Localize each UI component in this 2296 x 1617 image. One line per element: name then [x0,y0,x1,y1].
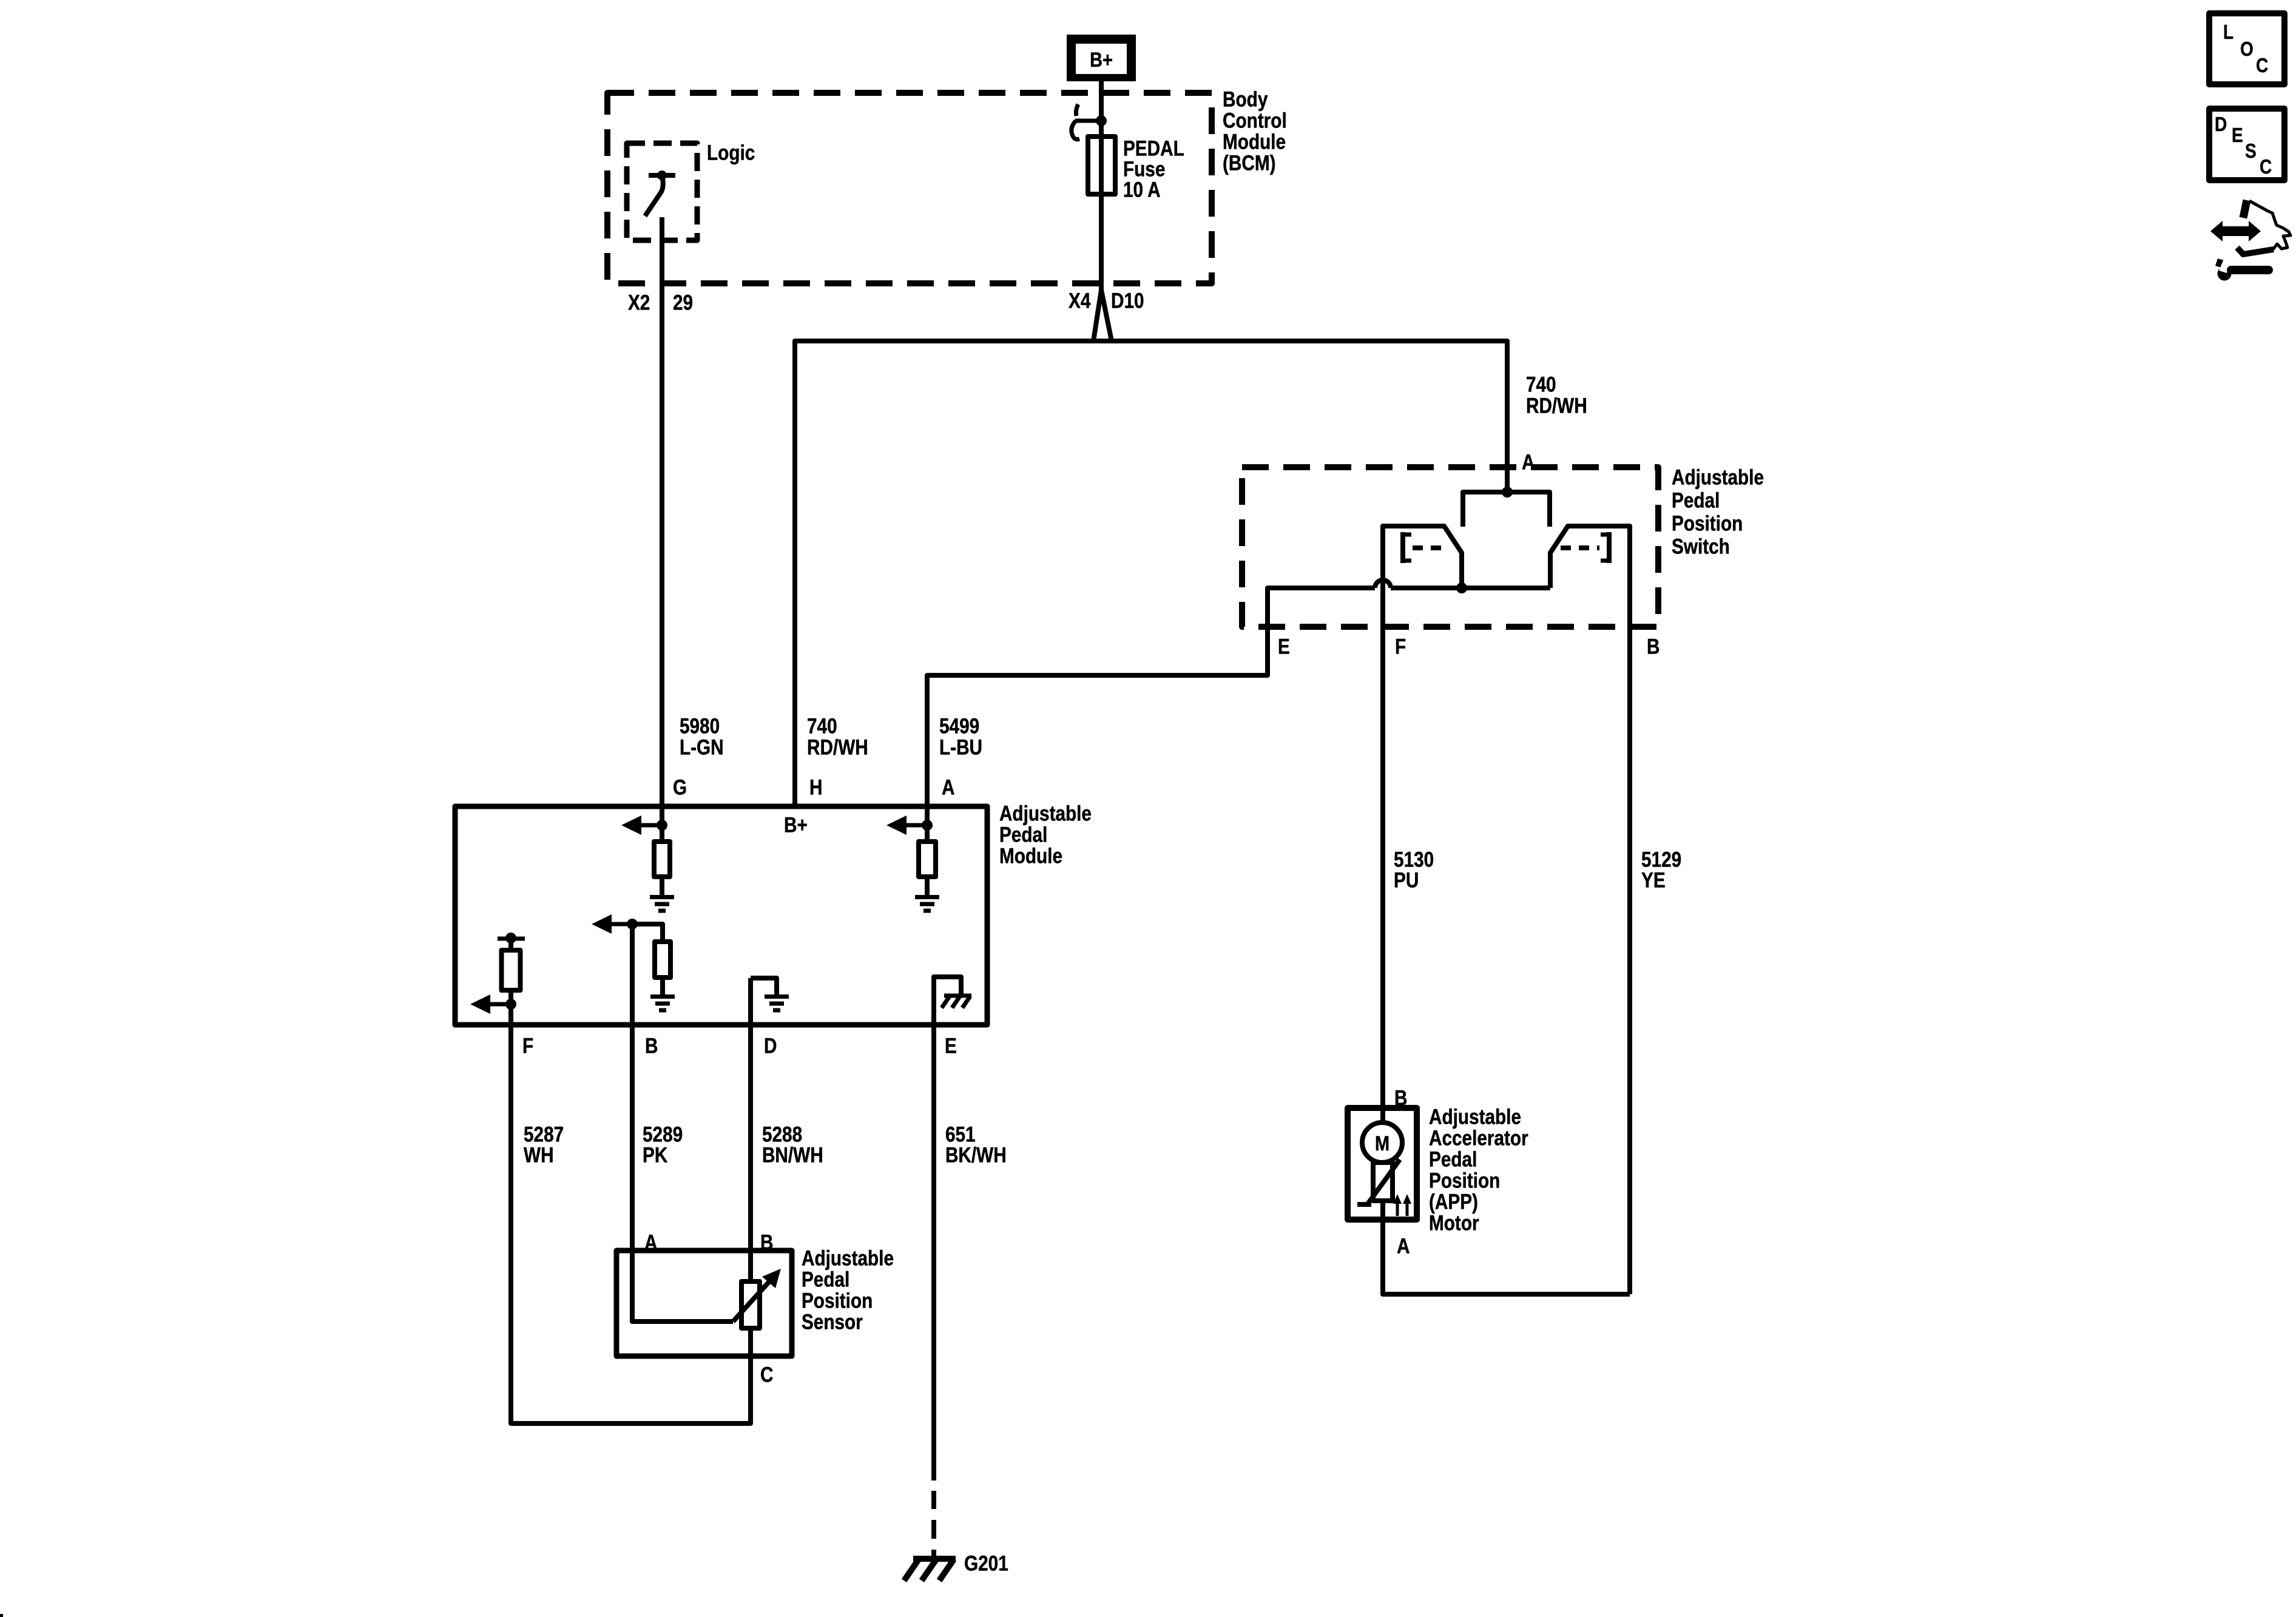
svg-text:E: E [945,1034,957,1058]
svg-text:29: 29 [673,291,693,314]
svg-text:PK: PK [643,1143,668,1167]
sensor wiper arrow [733,1281,769,1322]
label 5287 WH [524,1122,564,1167]
wire to G201 dashed [931,1491,936,1509]
wire hop over F [1375,580,1391,588]
ground A resistor [915,895,939,899]
svg-text:A: A [942,775,954,799]
ground G resistor [650,895,674,899]
svg-text:5129: 5129 [1641,848,1681,871]
svg-text:H: H [809,775,822,799]
switch linkage right bracket [1607,532,1612,563]
wire B+ feed [1099,81,1104,290]
svg-text:E: E [2232,124,2243,147]
svg-text:X2: X2 [628,291,650,314]
svg-text:5289: 5289 [643,1122,683,1146]
sensor wiper feed [632,1251,733,1322]
label X2 [628,291,650,314]
svg-text:Module: Module [999,844,1062,868]
label 5980 L-GN [680,714,724,759]
BCM internal switch [1076,104,1078,116]
label Logic [707,141,755,164]
icon LOC box [2209,13,2284,84]
label 651 BK/WH [945,1122,1007,1167]
label Body Control Module (BCM) [1223,87,1287,175]
motor variable resistor [1373,1163,1393,1201]
switch right contact blade [1550,526,1630,1294]
svg-text:Module: Module [1223,130,1286,154]
svg-text:Adjustable: Adjustable [1429,1105,1521,1129]
switch left contact blade [1383,526,1462,1108]
wire switch common to right contact [1462,586,1550,590]
Logic dashed box [627,143,697,240]
label 29 [673,291,693,314]
motor APP box [1348,1108,1417,1220]
svg-text:L: L [2223,21,2234,44]
svg-text:C: C [2260,156,2272,178]
label 5288 BN/WH [762,1122,823,1167]
icon adjust arrow [2210,221,2261,241]
svg-text:Position: Position [802,1289,873,1312]
motor symbol M [1380,1108,1385,1124]
svg-text:Adjustable: Adjustable [802,1246,894,1270]
wire 5289 PK [630,1025,635,1251]
svg-text:O: O [2240,38,2254,61]
svg-text:5499: 5499 [939,714,979,738]
label 740 RD/WH (switch) [1526,373,1587,417]
svg-text:A: A [1397,1234,1410,1258]
mark speck [0,1614,3,1617]
svg-text:Pedal: Pedal [1672,488,1720,512]
svg-text:651: 651 [945,1122,976,1146]
svg-text:C: C [760,1363,773,1386]
svg-text:Body: Body [1223,87,1268,111]
chassis ground E internal [944,994,971,998]
module G pull-up [660,806,664,842]
svg-text:740: 740 [1526,373,1556,396]
svg-text:B: B [645,1034,658,1058]
svg-text:YE: YE [1641,868,1666,892]
wire 740 RD/WH [795,341,1507,806]
svg-text:RD/WH: RD/WH [807,735,868,759]
junction dot switch common [1456,582,1467,593]
svg-text:F: F [522,1034,533,1058]
label pin A sensor [644,1230,657,1254]
svg-text:740: 740 [807,714,837,738]
svg-text:C: C [2256,55,2268,77]
label 5129 YE [1641,848,1681,892]
wire 651 BK/WH [931,1025,936,1480]
svg-text:BN/WH: BN/WH [762,1143,823,1167]
svg-text:Pedal: Pedal [1429,1147,1477,1171]
module F sense [498,937,525,941]
label Adjustable Pedal Position Switch [1672,465,1764,558]
module D ground path [751,978,777,994]
svg-text:Adjustable: Adjustable [1672,465,1764,489]
wire switch common to E [1391,586,1462,590]
switch APPS box [1242,467,1658,627]
svg-text:M: M [1375,1132,1389,1155]
label B+ [1090,48,1113,72]
module A pull-up [925,806,930,842]
wire 5499 L-BU [927,588,1375,806]
ground G201 [913,1556,956,1562]
label pin A switch [1522,450,1535,474]
module B sense [627,919,638,930]
svg-text:Logic: Logic [707,141,755,164]
svg-text:D10: D10 [1111,289,1144,312]
svg-text:(BCM): (BCM) [1223,151,1276,175]
svg-text:D: D [764,1034,777,1058]
sensor potentiometer [741,1281,760,1328]
module E chassis path [934,977,961,1025]
icon DESC letters [2215,113,2272,178]
svg-text:Position: Position [1672,511,1743,535]
svg-text:Accelerator: Accelerator [1429,1126,1528,1150]
label D10 [1111,289,1144,312]
label 5499 L-BU [939,714,982,759]
svg-text:B+: B+ [784,813,808,837]
svg-text:A: A [1522,450,1535,474]
svg-text:X4: X4 [1069,289,1090,312]
label pin E switch [1278,635,1290,658]
svg-text:Pedal: Pedal [999,823,1047,846]
label pin A module [942,775,954,799]
svg-text:L-GN: L-GN [680,735,724,759]
svg-text:Fuse: Fuse [1123,157,1165,181]
module APM box [455,806,987,1025]
power symbol B+ [1067,35,1136,81]
icon DESC box [2209,109,2284,180]
wire 5287 WH [511,1025,751,1423]
svg-text:B+: B+ [1090,48,1113,72]
svg-text:(APP): (APP) [1429,1190,1478,1214]
label pin D module [764,1034,777,1058]
label 5289 PK [643,1122,683,1167]
svg-text:5288: 5288 [762,1122,802,1146]
sensor APPS box [616,1251,792,1356]
icon LOC letters [2223,21,2268,77]
label X4 [1069,289,1090,312]
label PEDAL Fuse 10 A [1123,137,1184,201]
label pin B sensor [760,1230,773,1254]
fuse PEDAL 10 A [1088,137,1115,194]
label 740 RD/WH (module) [807,714,868,759]
motor up arrows [1396,1202,1399,1216]
svg-text:PU: PU [1394,868,1419,892]
label Adjustable Pedal Position Sensor [802,1246,894,1334]
label M [1375,1132,1389,1155]
svg-text:WH: WH [524,1143,554,1167]
junction dot switch A [1502,487,1513,498]
label 5130 PU [1394,848,1434,892]
svg-text:5130: 5130 [1394,848,1434,871]
svg-text:Motor: Motor [1429,1211,1479,1235]
svg-text:PEDAL: PEDAL [1123,137,1184,160]
svg-text:S: S [2245,140,2257,163]
label pin G [673,775,687,799]
switch linkage left bracket [1400,532,1405,563]
junction dot on B+ line [1096,115,1107,126]
label pin B module [645,1034,658,1058]
svg-text:E: E [1278,635,1290,658]
label pin B switch [1647,635,1660,658]
wire D10 split [1093,290,1112,341]
svg-text:10 A: 10 A [1123,178,1161,201]
label Adjustable Pedal Module [999,802,1092,868]
label Adjustable Accelerator Pedal Position (APP) Motor [1429,1105,1528,1235]
svg-text:RD/WH: RD/WH [1526,394,1587,417]
label B+ internal [784,813,808,837]
svg-text:Sensor: Sensor [802,1310,863,1334]
module BCM box [607,93,1212,283]
svg-text:5980: 5980 [680,714,720,738]
label pin H [809,775,822,799]
svg-text:Pedal: Pedal [802,1268,849,1291]
svg-text:D: D [2215,113,2227,136]
icon pedal outline [2243,200,2247,218]
svg-text:G201: G201 [964,1551,1008,1575]
svg-text:Adjustable: Adjustable [999,802,1092,825]
label G201 [964,1551,1008,1575]
svg-text:Switch: Switch [1672,535,1730,558]
ground D internal [765,994,789,999]
label pin A motor [1397,1234,1410,1258]
svg-text:Position: Position [1429,1169,1500,1192]
svg-text:L-BU: L-BU [939,735,982,759]
label pin C sensor [760,1363,773,1386]
ground B resistor [650,994,675,999]
wire motor A loop [1383,1201,1630,1294]
icon wrench [2218,267,2232,281]
logic switch [649,173,675,178]
switch common U bus [1463,492,1550,527]
svg-text:5287: 5287 [524,1122,564,1146]
label pin F switch [1395,635,1406,658]
label pin F module [522,1034,533,1058]
label pin B motor [1394,1086,1407,1110]
svg-text:B: B [1647,635,1660,658]
label pin E module [945,1034,957,1058]
wire 5980 L-GN [660,217,664,806]
svg-text:G: G [673,775,687,799]
wire 5288 BN/WH [748,1025,753,1281]
svg-text:BK/WH: BK/WH [945,1143,1007,1167]
svg-text:Control: Control [1223,109,1287,132]
svg-text:F: F [1395,635,1406,658]
